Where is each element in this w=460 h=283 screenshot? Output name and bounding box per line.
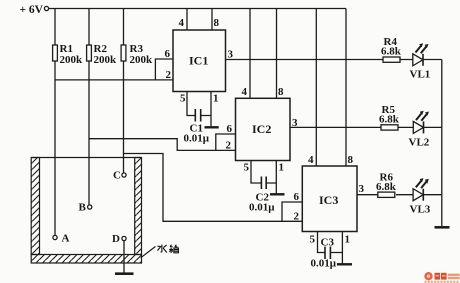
svg-text:200k: 200k — [94, 54, 118, 66]
svg-text:6.8k: 6.8k — [376, 181, 397, 193]
svg-text:6: 6 — [165, 48, 171, 60]
ground under probe D — [115, 272, 134, 275]
probe B — [79, 139, 92, 214]
ground bar under IC1 pin1 — [205, 126, 219, 128]
wire: IC1 pin4 to rail — [179, 9, 188, 31]
LED VL3 — [410, 178, 431, 215]
svg-text:5: 5 — [310, 234, 316, 246]
svg-text:B: B — [79, 202, 87, 214]
svg-text:2: 2 — [226, 140, 232, 152]
IC3 pin 6 wire — [282, 191, 302, 221]
svg-text:6: 6 — [294, 191, 300, 203]
svg-text:C: C — [113, 170, 121, 182]
+6V supply terminal — [20, 4, 49, 16]
ground bar under IC2 pin1 — [270, 193, 285, 195]
water tank walls — [31, 158, 141, 264]
resistor R2 — [87, 9, 117, 140]
svg-text:3: 3 — [228, 49, 234, 61]
IC3 pin 3 label — [359, 183, 365, 195]
svg-text:0.01μ: 0.01μ — [184, 133, 210, 145]
capacitor C3 — [310, 232, 351, 270]
wire: IC3 output row to LED rail — [357, 194, 442, 196]
svg-text:IC2: IC2 — [252, 122, 271, 136]
wire: IC2 pin8 to rail — [277, 9, 285, 99]
svg-text:IC1: IC1 — [189, 54, 208, 68]
svg-text:5: 5 — [180, 93, 186, 105]
capacitor C1 — [180, 92, 219, 145]
resistor R6 — [376, 172, 397, 198]
svg-text:6.8k: 6.8k — [381, 46, 402, 58]
label 水箱 (water tank) with pointer — [141, 245, 179, 258]
svg-text:3: 3 — [359, 183, 365, 195]
svg-text:VL3: VL3 — [410, 204, 431, 216]
op-amp/timer IC3 — [302, 166, 357, 232]
svg-text:0.01μ: 0.01μ — [311, 258, 337, 270]
svg-text:IC3: IC3 — [319, 193, 338, 207]
resistor R3 — [121, 9, 153, 154]
svg-text:5: 5 — [244, 162, 250, 174]
svg-text:2: 2 — [166, 69, 172, 81]
ground at right rail — [435, 226, 450, 229]
svg-text:200k: 200k — [130, 54, 154, 66]
probe C — [113, 154, 126, 182]
svg-text:1: 1 — [345, 234, 351, 246]
wire: IC3 pin8 to rail — [346, 9, 354, 167]
wire: IC2 output row to LED rail — [290, 126, 442, 128]
LED VL2 — [409, 111, 430, 149]
resistor R5 — [379, 104, 400, 130]
resistor R1 — [53, 9, 83, 81]
svg-text:0.01μ: 0.01μ — [249, 202, 275, 214]
svg-text:200k: 200k — [60, 54, 84, 66]
wire: IC1 output row to LED rail — [226, 59, 442, 61]
svg-text:6: 6 — [227, 123, 233, 135]
op-amp/timer IC2 — [236, 98, 291, 160]
wire: IC2 pin4 to rail — [242, 9, 251, 99]
svg-text:4: 4 — [308, 154, 314, 166]
wire: +6V top rail — [49, 8, 346, 10]
IC2 pin 3 label — [292, 117, 298, 129]
svg-text:C3: C3 — [321, 237, 335, 249]
svg-text:6.8k: 6.8k — [379, 114, 400, 126]
IC2 pin 2 wire with step from R2 — [89, 139, 236, 152]
IC1 pin 6 wire and label — [155, 48, 173, 80]
IC2 pin 6 wire — [216, 123, 236, 150]
IC1 pin 3 label — [228, 49, 234, 61]
IC3 pin 2 wire with step from R3 — [124, 154, 303, 223]
svg-text:8: 8 — [348, 154, 354, 166]
probe D with ground — [112, 233, 126, 274]
svg-text:VL1: VL1 — [410, 69, 431, 81]
IC1 pin 2 wire from R1 — [55, 69, 173, 81]
capacitor C2 — [244, 161, 285, 214]
svg-text:2: 2 — [294, 211, 300, 223]
svg-text:8: 8 — [278, 86, 284, 98]
LED VL1 — [410, 43, 431, 80]
resistor R4 — [381, 36, 402, 62]
wire: IC3 pin4 to rail — [308, 9, 316, 167]
svg-text:+ 6V: + 6V — [20, 4, 44, 16]
watermark logo bottom right — [424, 272, 459, 283]
svg-text:1: 1 — [279, 162, 285, 174]
probe A — [53, 80, 70, 245]
svg-text:4: 4 — [179, 17, 185, 29]
svg-text:1: 1 — [213, 93, 219, 105]
svg-text:8: 8 — [214, 17, 220, 29]
wire: IC1 pin8 to rail — [212, 9, 220, 31]
ground bar under IC3 pin1 — [337, 263, 352, 265]
svg-text:D: D — [112, 233, 120, 245]
wire: right cathode rail — [441, 60, 443, 228]
svg-text:VL2: VL2 — [409, 137, 430, 149]
op-amp/timer IC1 — [173, 30, 226, 92]
svg-text:4: 4 — [242, 86, 248, 98]
svg-text:A: A — [62, 233, 70, 245]
